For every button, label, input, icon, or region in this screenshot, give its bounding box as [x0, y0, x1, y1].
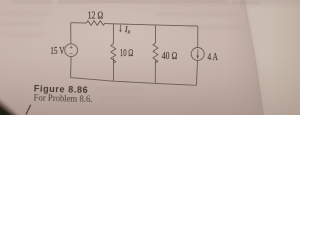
resistor R 10ohm (vertical zigzag) — [111, 44, 116, 63]
wire: top right segment — [105, 24, 198, 27]
current arrow shaft inside I1 — [197, 49, 199, 56]
voltage source V1 15V circle — [65, 44, 78, 57]
svg-text:15 V: 15 V — [50, 46, 65, 57]
svg-text:For Problem 8.6.: For Problem 8.6. — [33, 94, 92, 106]
arrowhead of I1 — [196, 56, 199, 60]
wire: 40ohm branch lower — [154, 60, 156, 83]
page fold shadow left of edge — [225, 0, 264, 115]
wire: middle branch upper — [112, 24, 114, 44]
wire: bottom — [71, 78, 197, 86]
wire: 40ohm branch upper — [155, 25, 157, 43]
dark table corner bottom-left core — [0, 103, 17, 120]
caption figure number — [33, 83, 92, 105]
svg-text:12 Ω: 12 Ω — [88, 10, 104, 21]
svg-text:10 Ω: 10 Ω — [120, 48, 134, 59]
polarity minus of V1 — [70, 53, 73, 55]
page edge line — [245, 0, 264, 115]
current arrow Ix — [119, 25, 122, 33]
wire: left vertical upper — [70, 23, 72, 44]
svg-text:40 Ω: 40 Ω — [162, 51, 178, 62]
bottom shading over full width — [0, 55, 300, 115]
current source I1 4A circle — [191, 48, 204, 61]
top edge shading — [240, 0, 300, 10]
resistor R 12ohm (horizontal zigzag) — [86, 21, 105, 26]
faint ghost print-through at top — [12, 0, 260, 4]
wire: left vertical lower — [70, 57, 73, 78]
next page area right of edge — [245, 0, 300, 115]
resistor R 40ohm (vertical zigzag) — [153, 43, 158, 63]
polarity plus of V1 — [70, 46, 73, 49]
dark table corner bottom-left penumbra — [0, 98, 23, 121]
wire: top left segment — [71, 22, 87, 24]
wire: middle branch lower — [113, 58, 115, 81]
page background — [0, 0, 300, 115]
svg-text:4 A: 4 A — [208, 52, 219, 63]
pen mark slash — [26, 105, 31, 115]
wire: right vertical upper — [197, 26, 199, 47]
labels (serif, photo ink) — [50, 10, 218, 63]
wire: right vertical lower — [196, 61, 197, 86]
